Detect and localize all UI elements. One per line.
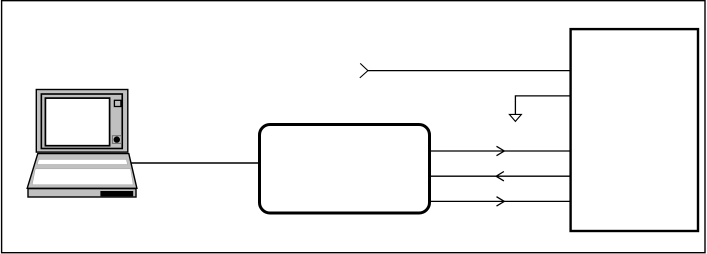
monitor small square (top-right) [114,100,121,106]
laptop hinge strip [37,159,127,164]
open triangle arrowhead pointing down [509,114,521,121]
converter box (rounded rectangle) [260,125,430,214]
open chevron arrowhead at start of top input line [360,63,368,78]
chevron arrow left on wire 2 [496,172,504,181]
monitor inner frame [41,94,122,149]
monitor power button square [112,136,121,144]
laptop front label black rectangle [100,191,133,196]
laptop computer [27,90,137,198]
monitor outer bezel [36,90,128,153]
wire 3: converter box to device block (bottom) [431,200,570,202]
wire 2: device block to converter box (middle) [431,175,570,177]
wire: computer to converter box [131,162,260,164]
monitor power button dot [114,136,120,142]
device block (right rectangle) [571,29,698,231]
top input line into device block [368,70,570,72]
laptop front bar [28,189,136,197]
chevron arrow right on wire 1 [497,146,505,155]
output line from device block turning down [515,96,570,115]
laptop base trapezoid [27,154,137,189]
monitor screen [45,98,109,146]
chevron arrow right on wire 3 [497,197,505,206]
wire 1: converter box to device block (top) [431,150,570,152]
laptop keyboard area [32,169,133,185]
